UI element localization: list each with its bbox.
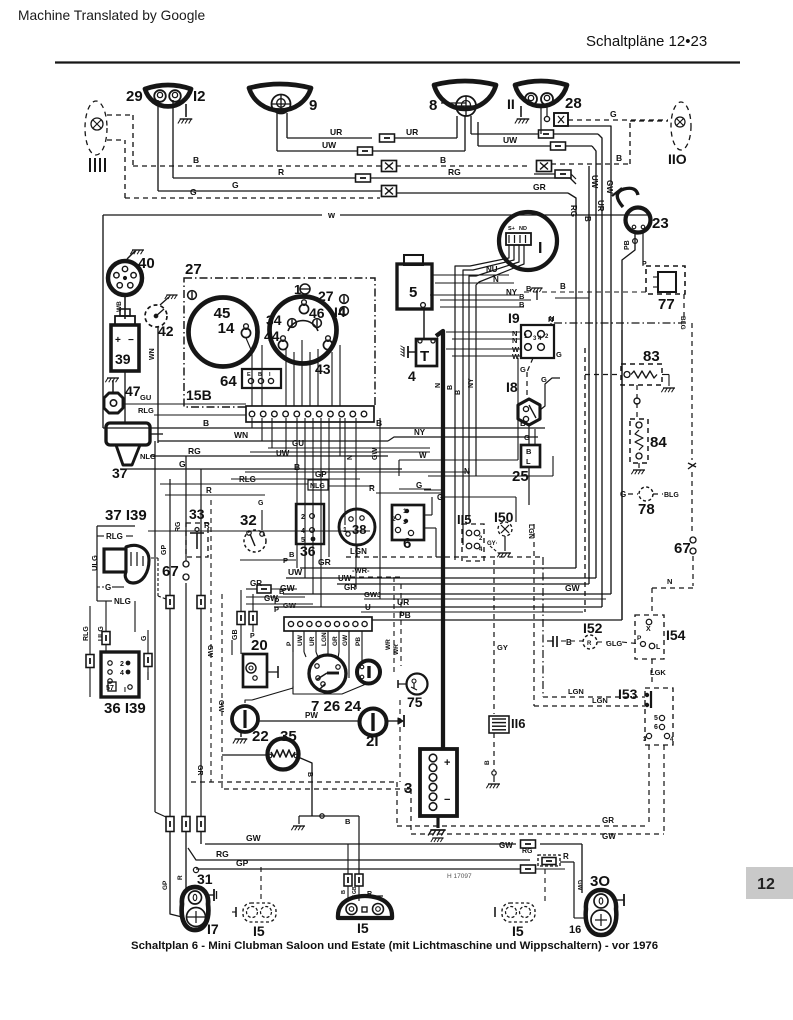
svg-text:B: B	[341, 890, 347, 894]
svg-text:40: 40	[138, 255, 155, 272]
svg-text:GW: GW	[576, 880, 582, 891]
svg-text:P: P	[286, 641, 293, 646]
svg-text:B: B	[519, 300, 525, 309]
svg-text:G: G	[541, 375, 547, 384]
svg-text:GW: GW	[565, 583, 581, 593]
svg-text:S+: S+	[508, 226, 515, 232]
svg-text:15B: 15B	[186, 387, 212, 403]
svg-text:P: P	[250, 633, 255, 640]
svg-text:75: 75	[407, 694, 423, 710]
svg-text:w: w	[327, 210, 336, 220]
svg-text:GWJ: GWJ	[364, 590, 381, 599]
svg-text:GR: GR	[196, 765, 203, 776]
svg-text:84: 84	[650, 434, 667, 451]
svg-text:22: 22	[252, 728, 269, 745]
svg-text:23: 23	[652, 215, 669, 232]
svg-text:GR: GR	[332, 636, 339, 646]
svg-text:L: L	[656, 644, 661, 651]
svg-text:83: 83	[643, 348, 660, 365]
svg-text:I54: I54	[666, 627, 686, 643]
svg-text:31: 31	[197, 871, 213, 887]
svg-text:78: 78	[638, 501, 655, 518]
svg-text:NLG: NLG	[310, 483, 325, 490]
svg-text:B: B	[203, 418, 209, 428]
svg-text:33: 33	[189, 506, 205, 522]
svg-text:UR: UR	[596, 200, 605, 212]
svg-text:N: N	[347, 455, 354, 460]
svg-text:RG: RG	[448, 167, 461, 177]
svg-text:B: B	[520, 419, 526, 428]
svg-text:38: 38	[352, 522, 366, 537]
svg-text:GY·: GY·	[487, 541, 498, 547]
svg-text:77: 77	[658, 296, 675, 313]
svg-text:G: G	[141, 635, 148, 641]
svg-text:B: B	[583, 216, 592, 222]
svg-text:2I: 2I	[366, 733, 379, 750]
svg-text:G: G	[190, 187, 197, 197]
svg-text:UR: UR	[330, 127, 342, 137]
svg-text:GW: GW	[217, 700, 224, 712]
svg-text:I53: I53	[618, 686, 638, 702]
svg-text:RG: RG	[216, 849, 229, 859]
svg-text:UW: UW	[590, 175, 599, 189]
svg-text:I52: I52	[583, 620, 603, 636]
svg-text:GR: GR	[533, 182, 546, 192]
svg-text:9: 9	[309, 97, 317, 114]
svg-text:G: G	[620, 490, 626, 499]
svg-text:+: +	[115, 335, 121, 346]
svg-text:LGN: LGN	[321, 632, 328, 646]
svg-text:GR: GR	[250, 579, 262, 588]
svg-text:34: 34	[266, 312, 282, 328]
svg-text:12: 12	[757, 876, 775, 893]
svg-text:GW: GW	[283, 601, 297, 610]
svg-text:N: N	[549, 314, 554, 323]
svg-text:RLG: RLG	[83, 626, 90, 641]
svg-text:I: I	[538, 240, 542, 257]
svg-text:+: +	[444, 757, 450, 769]
svg-text:II6: II6	[511, 716, 525, 731]
svg-text:GR: GR	[602, 816, 614, 825]
svg-text:GW: GW	[602, 832, 616, 841]
svg-text:GW: GW	[342, 634, 349, 646]
svg-text:−: −	[128, 335, 134, 346]
svg-text:GW: GW	[605, 180, 614, 194]
svg-text:N: N	[667, 577, 672, 586]
svg-text:B: B	[289, 550, 295, 559]
svg-text:G: G	[258, 500, 264, 507]
svg-text:RLG: RLG	[138, 406, 154, 415]
svg-text:E: E	[247, 372, 251, 378]
svg-text:G: G	[179, 459, 186, 469]
svg-text:GP: GP	[236, 858, 249, 868]
svg-text:G: G	[610, 109, 617, 119]
svg-text:R: R	[369, 484, 375, 493]
svg-text:64: 64	[220, 373, 237, 390]
svg-text:B: B	[616, 153, 622, 163]
svg-text:37 I39: 37 I39	[105, 507, 147, 524]
svg-text:UR: UR	[309, 636, 316, 646]
svg-text:B: B	[484, 760, 491, 765]
svg-text:T: T	[420, 348, 429, 365]
svg-text:67: 67	[674, 540, 691, 557]
svg-text:LGN: LGN	[592, 696, 608, 705]
svg-text:NY: NY	[468, 378, 475, 388]
svg-text:RLG: RLG	[239, 475, 256, 484]
svg-text:ND: ND	[519, 226, 527, 232]
svg-text:UW: UW	[503, 135, 518, 145]
svg-text:4: 4	[120, 670, 124, 677]
svg-text:28: 28	[565, 95, 582, 112]
svg-text:GU: GU	[140, 393, 151, 402]
svg-text:43: 43	[315, 361, 331, 377]
svg-text:R: R	[563, 852, 569, 861]
svg-text:14: 14	[218, 320, 235, 337]
svg-text:UW: UW	[288, 567, 303, 577]
svg-text:44: 44	[264, 328, 280, 344]
svg-text:RG: RG	[188, 446, 201, 456]
svg-text:II: II	[507, 96, 515, 112]
svg-text:U: U	[365, 603, 371, 612]
svg-text:R: R	[177, 875, 184, 880]
svg-text:46: 46	[309, 305, 325, 321]
svg-text:RG: RG	[175, 521, 182, 532]
svg-text:LGN: LGN	[527, 524, 534, 539]
svg-text:B: B	[447, 385, 454, 390]
svg-text:II5: II5	[457, 512, 471, 527]
svg-text:I2: I2	[193, 88, 206, 105]
svg-text:−: −	[444, 794, 450, 806]
svg-text:W: W	[419, 451, 427, 460]
svg-text:29: 29	[126, 88, 143, 105]
svg-text:B: B	[258, 372, 262, 378]
svg-text:16: 16	[569, 924, 581, 936]
svg-text:GW: GW	[372, 448, 379, 460]
svg-text:8: 8	[429, 97, 437, 114]
svg-text:I5: I5	[512, 923, 524, 939]
svg-text:R: R	[278, 167, 284, 177]
svg-text:-WR-: -WR-	[352, 566, 370, 575]
svg-text:PB: PB	[355, 637, 362, 646]
svg-text:NY: NY	[506, 288, 518, 297]
svg-text:B: B	[376, 418, 382, 428]
svg-text:6: 6	[403, 535, 411, 552]
svg-text:UW: UW	[322, 140, 337, 150]
svg-text:B: B	[306, 772, 313, 777]
svg-text:B: B	[566, 638, 572, 647]
svg-text:RG: RG	[522, 848, 533, 855]
svg-text:39: 39	[115, 351, 131, 367]
svg-text:I5: I5	[357, 920, 369, 936]
svg-text:PB: PB	[624, 240, 631, 250]
svg-text:4: 4	[408, 368, 416, 384]
svg-text:UW: UW	[276, 449, 290, 458]
svg-text:GB: GB	[352, 886, 358, 894]
svg-text:GR: GR	[318, 557, 331, 567]
svg-text:67: 67	[162, 563, 179, 580]
svg-text:R: R	[206, 486, 212, 495]
svg-text:P: P	[637, 635, 642, 642]
svg-text:N: N	[512, 336, 517, 345]
svg-text:2: 2	[301, 514, 305, 521]
svg-text:I8: I8	[506, 379, 518, 395]
svg-text:P: P	[283, 556, 288, 565]
svg-text:7: 7	[110, 685, 114, 692]
svg-text:I: I	[124, 687, 126, 694]
svg-text:LGN: LGN	[350, 547, 367, 556]
svg-text:GR: GR	[344, 583, 356, 592]
svg-text:2: 2	[120, 661, 124, 668]
svg-text:G: G	[105, 583, 111, 592]
svg-text:47: 47	[125, 383, 141, 399]
svg-text:5: 5	[409, 284, 417, 301]
svg-text:NU: NU	[486, 265, 498, 274]
svg-text:37: 37	[112, 465, 128, 481]
svg-text:LGK: LGK	[650, 668, 666, 677]
svg-text:WR: WR	[393, 644, 400, 655]
svg-text:G: G	[556, 350, 562, 359]
svg-text:X: X	[646, 626, 651, 633]
svg-text:G: G	[232, 180, 239, 190]
svg-text:32: 32	[240, 512, 257, 529]
svg-text:GB: GB	[232, 630, 239, 641]
svg-text:I7: I7	[207, 921, 219, 937]
svg-text:IIO: IIO	[668, 151, 687, 167]
svg-text:36 I39: 36 I39	[104, 700, 146, 717]
svg-text:GP: GP	[162, 880, 169, 890]
svg-text:B: B	[455, 390, 462, 395]
svg-text:P: P	[642, 261, 647, 268]
svg-text:RLG: RLG	[106, 532, 123, 541]
svg-text:3O: 3O	[590, 873, 610, 890]
svg-text:PW: PW	[305, 711, 318, 720]
svg-text:WN: WN	[149, 348, 156, 360]
svg-text:NLG: NLG	[114, 597, 131, 606]
svg-text:GW: GW	[246, 833, 262, 843]
svg-text:UW: UW	[338, 574, 352, 583]
svg-text:5: 5	[654, 715, 658, 722]
svg-text:B: B	[526, 447, 532, 456]
svg-text:ULG: ULG	[90, 555, 99, 571]
svg-text:G: G	[437, 493, 443, 502]
svg-text:42: 42	[158, 323, 174, 339]
svg-text:GW: GW	[499, 841, 513, 850]
svg-text:H 17097: H 17097	[447, 873, 472, 880]
svg-text:2: 2	[392, 516, 396, 523]
svg-text:GU: GU	[292, 439, 304, 448]
svg-text:B: B	[193, 155, 199, 165]
svg-text:I5: I5	[253, 923, 265, 939]
svg-text:P: P	[274, 597, 280, 606]
svg-text:B: B	[560, 282, 566, 291]
svg-text:R: R	[587, 641, 592, 647]
svg-text:P: P	[274, 605, 279, 614]
svg-text:L: L	[526, 457, 531, 466]
svg-text:I50: I50	[494, 509, 514, 525]
svg-text:G: G	[416, 481, 422, 490]
svg-text:R: R	[204, 521, 210, 530]
svg-text:27: 27	[185, 261, 202, 278]
svg-text:7 26 24: 7 26 24	[311, 698, 362, 715]
svg-text:GP: GP	[161, 545, 168, 555]
svg-text:UR: UR	[397, 597, 409, 607]
svg-text:I9: I9	[508, 310, 520, 326]
svg-text:WR: WR	[385, 639, 392, 650]
svg-text:R: R	[367, 891, 372, 898]
svg-text:RG: RG	[569, 205, 578, 217]
svg-text:GW: GW	[206, 645, 213, 657]
svg-text:BLG: BLG	[664, 492, 679, 499]
svg-text:B: B	[440, 155, 446, 165]
svg-text:Schaltplan 6 - Mini Clubman Sa: Schaltplan 6 - Mini Clubman Saloon und E…	[131, 940, 658, 952]
svg-text:LGN: LGN	[568, 687, 584, 696]
svg-text:WN: WN	[234, 430, 248, 440]
svg-text:Machine Translated by Google: Machine Translated by Google	[18, 8, 205, 23]
svg-text:G: G	[520, 365, 526, 374]
svg-text:GLG: GLG	[606, 639, 622, 648]
svg-text:GY: GY	[497, 643, 508, 652]
svg-text:UW: UW	[297, 634, 304, 646]
svg-text:UR: UR	[406, 127, 418, 137]
svg-text:Schaltpläne 12•23: Schaltpläne 12•23	[586, 33, 707, 50]
svg-text:35: 35	[280, 728, 297, 745]
svg-text:6: 6	[654, 724, 658, 731]
svg-text:B: B	[345, 817, 351, 826]
svg-text:GW: GW	[280, 583, 296, 593]
svg-text:NY: NY	[414, 428, 426, 437]
svg-text:N: N	[435, 383, 442, 388]
